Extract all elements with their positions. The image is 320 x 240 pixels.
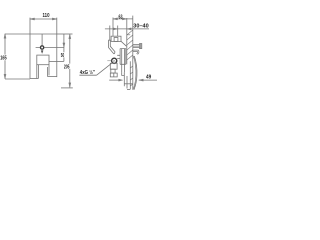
plate bottom edge <box>30 78 38 80</box>
label 4xG 1/2 <box>80 69 95 76</box>
cap inner box <box>114 38 118 42</box>
tick at cap front <box>117 26 119 37</box>
wall niche edge <box>126 76 128 89</box>
dim 165 bottom extension line <box>5 78 30 80</box>
niche bottom <box>127 89 130 91</box>
dim 49 line <box>139 79 157 81</box>
nipple box <box>111 69 115 73</box>
back outlet nut hatch <box>139 44 142 49</box>
wall hatching lower <box>130 66 133 86</box>
dim 165 top arrow <box>4 34 6 39</box>
label 30-40 <box>133 23 148 29</box>
niche horizontal <box>124 83 133 85</box>
dim 63 right arrow <box>122 18 127 20</box>
spout tube left wall <box>37 65 39 79</box>
dim 110 right arrow <box>52 18 57 20</box>
dim 49 label <box>146 74 151 80</box>
svg-text:50: 50 <box>61 53 64 59</box>
handle lever <box>109 40 115 54</box>
svg-text:205: 205 <box>64 64 70 70</box>
dim 165 bottom arrow <box>4 74 6 79</box>
dim 205 line <box>69 34 71 87</box>
spout box <box>37 55 49 65</box>
flange divider <box>113 73 115 77</box>
dim 49 arrow <box>139 79 144 81</box>
spout tube right wall <box>48 65 49 77</box>
dim 110 left arrow <box>30 18 35 20</box>
flange box <box>110 73 117 77</box>
dim 63 left extension line <box>112 18 114 37</box>
spout step line <box>48 76 57 78</box>
svg-text:49: 49 <box>146 74 151 80</box>
bottom reference line (tub rim) <box>61 87 73 89</box>
dim 165 top extension line <box>5 33 30 35</box>
dim 50 label <box>61 53 64 59</box>
plate left edge <box>29 34 31 79</box>
dim 205 top arrow <box>69 34 71 39</box>
30-40 right-pointing arrow <box>113 28 117 30</box>
vertical centerline <box>41 34 43 51</box>
tick at handle extension <box>109 26 111 41</box>
dim 110 right extension line <box>56 18 58 34</box>
svg-text:165: 165 <box>0 56 7 62</box>
dim 110 label <box>43 13 50 19</box>
dim 63 line <box>113 18 133 20</box>
hose curve inner <box>133 56 136 89</box>
dim 63 left arrow <box>113 18 118 20</box>
dim 110 left extension line <box>29 18 31 34</box>
back lower pipe <box>133 50 139 51</box>
spout centerline reference <box>49 60 64 62</box>
dim 50 line <box>63 34 65 61</box>
leader diagonal <box>97 64 112 76</box>
back outlet nut <box>140 44 142 49</box>
pipe lines to wall <box>117 49 126 73</box>
outlet direction arrow <box>109 79 121 81</box>
wall front face upper <box>126 18 128 64</box>
svg-text:63: 63 <box>119 15 123 21</box>
nut box <box>110 63 117 69</box>
30-40 dim line <box>105 28 149 30</box>
dim 165 label <box>0 55 7 62</box>
dim 205 bottom arrow <box>69 83 71 88</box>
plate top edge <box>30 33 57 35</box>
30-40 left-pointing arrow <box>127 28 131 30</box>
plate right edge <box>56 34 58 77</box>
G half circle <box>112 58 117 63</box>
wall hatching upper <box>127 30 133 60</box>
dim 205 label <box>64 64 70 70</box>
flow arrow on centerline <box>41 51 44 54</box>
dim 165 line <box>4 34 6 79</box>
wall back face <box>132 16 134 90</box>
horizontal centerline <box>36 47 64 49</box>
body cone to wall <box>121 41 127 46</box>
elbow to hose <box>137 50 139 54</box>
dim 50 arrow <box>63 43 65 48</box>
plate top extension to 205 line <box>57 33 73 35</box>
circle inner cross <box>107 59 115 62</box>
wall front face lower <box>129 61 131 89</box>
back outlet pipe <box>133 45 140 48</box>
pipe lower verticals <box>122 72 125 86</box>
dim 63 label <box>119 15 123 21</box>
handle circle <box>40 46 43 49</box>
valve cap box <box>111 36 121 41</box>
outlet direction arrowhead <box>119 79 123 81</box>
hose curve <box>134 56 137 90</box>
leader underline <box>79 74 96 76</box>
dim 110 line <box>30 18 57 20</box>
svg-text:110: 110 <box>43 13 50 19</box>
